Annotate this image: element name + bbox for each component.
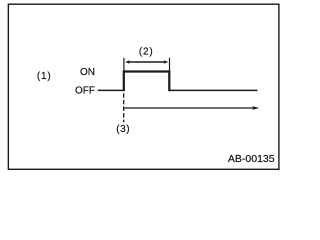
svg-text:(3): (3) [116,124,130,135]
svg-text:OFF: OFF [75,86,95,97]
svg-text:ON: ON [80,67,95,78]
svg-text:AB-00135: AB-00135 [228,153,275,165]
svg-text:(1): (1) [37,71,52,82]
svg-text:(2): (2) [139,47,154,58]
